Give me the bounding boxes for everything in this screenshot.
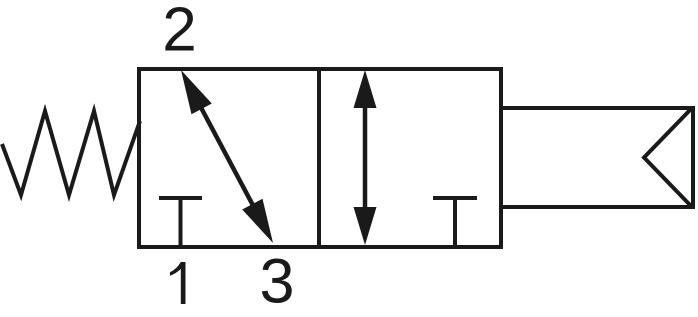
svg-text:2: 2 — [162, 0, 196, 65]
svg-text:3: 3 — [259, 247, 294, 317]
